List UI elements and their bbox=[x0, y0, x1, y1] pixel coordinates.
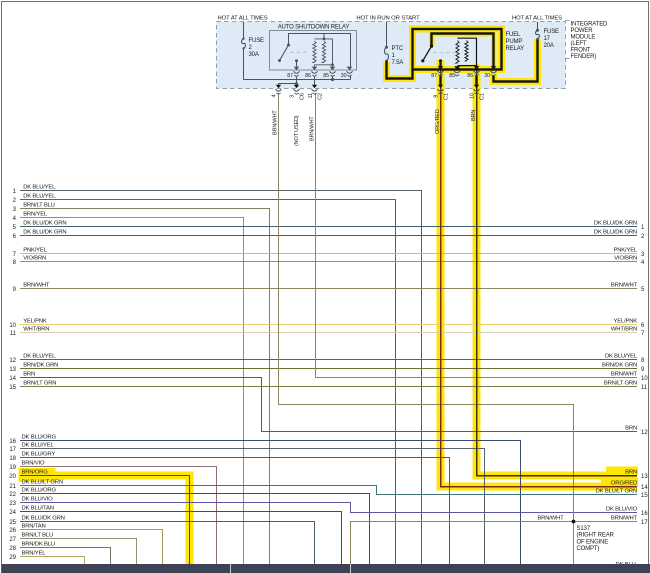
wire BRN/WHT splice branch to PCM bar bbox=[351, 522, 638, 567]
svg-text:13: 13 bbox=[641, 474, 648, 480]
svg-text:30A: 30A bbox=[249, 52, 259, 58]
svg-text:86: 86 bbox=[467, 73, 473, 79]
IPM border connectors right bbox=[438, 85, 443, 89]
svg-text:C1: C1 bbox=[480, 93, 486, 100]
svg-text:15: 15 bbox=[641, 493, 648, 499]
svg-text:29: 29 bbox=[9, 555, 16, 561]
wire 14 BRN (left) bbox=[20, 378, 637, 432]
svg-text:MODULE: MODULE bbox=[571, 35, 596, 41]
wire 7 PNK/YEL (left) bbox=[20, 253, 637, 255]
svg-text:11: 11 bbox=[641, 385, 648, 391]
svg-text:BRN/WHT: BRN/WHT bbox=[273, 110, 279, 135]
svg-text:HOT AT ALL TIMES: HOT AT ALL TIMES bbox=[512, 16, 562, 22]
FPR pin arrows/connectors bbox=[438, 66, 444, 70]
svg-text:DK BLU/ORG: DK BLU/ORG bbox=[22, 434, 57, 440]
svg-text:FRONT: FRONT bbox=[571, 48, 591, 54]
wire BRN fuel pump relay 86 bbox=[477, 70, 638, 476]
svg-text:BRN/LT BLU: BRN/LT BLU bbox=[23, 202, 55, 208]
wire 3 BRN/LT BLU (left) bbox=[20, 209, 270, 567]
FPR pin85/86 stubs bbox=[458, 66, 460, 70]
wire 28 BRN/DK BLU (left) bbox=[20, 548, 111, 567]
svg-text:RELAY: RELAY bbox=[506, 46, 525, 52]
svg-text:PUMP: PUMP bbox=[506, 39, 523, 45]
wire 5 DK BLU/DK GRN (left) bbox=[20, 226, 637, 228]
svg-text:DK BLU/GRY: DK BLU/GRY bbox=[22, 451, 56, 457]
svg-text:BRN/DK GRN: BRN/DK GRN bbox=[602, 362, 637, 368]
svg-text:11: 11 bbox=[308, 93, 314, 99]
svg-text:PNK/YEL: PNK/YEL bbox=[614, 247, 638, 253]
svg-text:BRN/TAN: BRN/TAN bbox=[22, 523, 46, 529]
wire 12 DK BLU/YEL (left) bbox=[20, 359, 637, 361]
svg-text:DK BLU/DK GRN: DK BLU/DK GRN bbox=[594, 229, 637, 235]
svg-text:BRN/DK BLU: BRN/DK BLU bbox=[22, 541, 55, 547]
svg-text:BRN/WHT: BRN/WHT bbox=[309, 116, 315, 141]
ASD pin87 branch to pins 4/3 bbox=[296, 77, 298, 84]
svg-text:9: 9 bbox=[434, 95, 440, 98]
ASD coil bracket bbox=[315, 39, 333, 65]
wire 1 DK BLU/YEL (left) bbox=[20, 191, 422, 567]
svg-text:(LEFT: (LEFT bbox=[571, 41, 587, 47]
svg-text:3: 3 bbox=[290, 95, 296, 98]
svg-text:BRN/WHT: BRN/WHT bbox=[23, 282, 50, 288]
svg-text:INTEGRATED: INTEGRATED bbox=[571, 22, 609, 28]
svg-text:BRN/YEL: BRN/YEL bbox=[23, 211, 48, 217]
svg-text:PTC: PTC bbox=[392, 46, 404, 52]
svg-text:85: 85 bbox=[449, 73, 455, 79]
fuse F17 20A bbox=[537, 22, 539, 30]
wire ORG/RED fuel pump relay 87 bbox=[441, 70, 638, 487]
svg-text:30: 30 bbox=[341, 73, 347, 79]
FPR coil bbox=[456, 41, 459, 64]
svg-text:86: 86 bbox=[305, 73, 311, 79]
FPR pin87 contact bbox=[439, 61, 441, 70]
svg-text:12: 12 bbox=[641, 430, 648, 436]
ASD common feed bbox=[289, 34, 351, 67]
svg-text:26: 26 bbox=[9, 528, 16, 534]
svg-text:HOT AT ALL TIMES: HOT AT ALL TIMES bbox=[218, 16, 268, 22]
svg-text:15: 15 bbox=[9, 385, 16, 391]
svg-text:BRN/VIO: BRN/VIO bbox=[22, 460, 45, 466]
svg-text:BRN/ORG: BRN/ORG bbox=[22, 469, 49, 475]
svg-text:BRN: BRN bbox=[625, 425, 637, 431]
svg-text:BRN/WHT: BRN/WHT bbox=[611, 282, 638, 288]
svg-text:BRN/LT GRN: BRN/LT GRN bbox=[604, 380, 637, 386]
svg-text:DK BLU/DK GRN: DK BLU/DK GRN bbox=[23, 220, 66, 226]
wire 16 DK BLU/ORG (left) bbox=[20, 441, 521, 567]
svg-text:30: 30 bbox=[484, 73, 490, 79]
svg-text:DK BLU/YEL: DK BLU/YEL bbox=[23, 184, 56, 190]
wire 6 DK BLU/DK GRN (left) bbox=[20, 235, 637, 237]
svg-text:PNK/YEL: PNK/YEL bbox=[23, 247, 47, 253]
FPR coil bracket bbox=[458, 38, 477, 65]
svg-text:VIO/BRN: VIO/BRN bbox=[23, 255, 46, 261]
ASD pin87 contact bbox=[296, 61, 298, 67]
svg-text:BRN: BRN bbox=[23, 371, 35, 377]
wire 18 DK BLU/GRY (left) bbox=[20, 458, 450, 567]
wire 19 BRN/VIO (left) bbox=[20, 467, 217, 567]
svg-text:WHT/BRN: WHT/BRN bbox=[23, 326, 49, 332]
svg-text:ORG/RED: ORG/RED bbox=[435, 109, 441, 134]
svg-text:DK BLU/VIO: DK BLU/VIO bbox=[606, 506, 638, 512]
splice S137 bbox=[572, 520, 576, 524]
IPM border connectors left bbox=[276, 85, 281, 89]
svg-text:ORG/RED: ORG/RED bbox=[611, 480, 637, 486]
wire BRN/WHT from IPM pin 11 bbox=[316, 93, 638, 378]
svg-text:23: 23 bbox=[9, 501, 16, 507]
svg-text:20: 20 bbox=[9, 474, 16, 480]
svg-text:BRN/WHT: BRN/WHT bbox=[611, 515, 638, 521]
svg-text:27: 27 bbox=[9, 537, 16, 543]
svg-text:DK BLU/LT GRN: DK BLU/LT GRN bbox=[22, 479, 63, 485]
wire 13 BRN/DK GRN (left) bbox=[20, 368, 637, 370]
svg-text:22: 22 bbox=[9, 492, 16, 498]
svg-text:BRN/WHT: BRN/WHT bbox=[611, 371, 638, 377]
svg-text:AUTO SHUTDOWN RELAY: AUTO SHUTDOWN RELAY bbox=[278, 24, 350, 30]
svg-text:85: 85 bbox=[323, 73, 329, 79]
svg-text:20A: 20A bbox=[544, 43, 554, 49]
svg-text:4: 4 bbox=[272, 95, 278, 98]
wire 11 WHT/BRN (left) bbox=[20, 332, 637, 334]
svg-text:YEL/PNK: YEL/PNK bbox=[614, 318, 638, 324]
ASD coil bbox=[313, 41, 316, 63]
bar ticks bbox=[230, 564, 232, 573]
svg-text:DK BLU/TAN: DK BLU/TAN bbox=[22, 505, 54, 511]
svg-text:DK BLU/ORG: DK BLU/ORG bbox=[22, 487, 57, 493]
svg-text:11: 11 bbox=[10, 331, 17, 337]
svg-text:18: 18 bbox=[9, 456, 16, 462]
label integrated power module bbox=[566, 20, 570, 22]
FPR output wires to border bbox=[439, 76, 441, 87]
relay AUTO SHUTDOWN RELAY bbox=[270, 31, 357, 71]
ASD coil feed riser bbox=[323, 34, 325, 39]
svg-text:17: 17 bbox=[641, 520, 648, 526]
relay FUEL PUMP RELAY bbox=[413, 29, 502, 70]
ASD switch blade bbox=[280, 45, 289, 61]
svg-text:14: 14 bbox=[641, 485, 648, 491]
svg-text:13: 13 bbox=[9, 367, 16, 373]
svg-text:DK BLU/DK GRN: DK BLU/DK GRN bbox=[594, 220, 637, 226]
svg-text:16: 16 bbox=[641, 511, 648, 517]
FPR common feed bbox=[432, 34, 494, 69]
svg-text:YEL/PNK: YEL/PNK bbox=[23, 318, 47, 324]
svg-text:25: 25 bbox=[9, 520, 16, 526]
wire 22 DK BLU/ORG (left) bbox=[20, 494, 370, 567]
svg-text:DK BLU/DK GRN: DK BLU/DK GRN bbox=[23, 229, 66, 235]
svg-text:COMPT): COMPT) bbox=[577, 546, 600, 552]
svg-text:FUSE: FUSE bbox=[544, 29, 560, 35]
ASD switch dashes bbox=[290, 51, 309, 53]
wire 21 DK BLU/LT GRN (left) bbox=[20, 486, 637, 495]
FPR switch dashes bbox=[433, 52, 455, 54]
svg-text:S137: S137 bbox=[577, 526, 591, 532]
wire 20 BRN/ORG (left) bbox=[20, 476, 190, 567]
svg-text:87: 87 bbox=[431, 73, 437, 79]
wire 15 BRN/LT GRN (left) bbox=[20, 386, 637, 388]
integrated power module box bbox=[217, 22, 566, 89]
svg-text:BRN: BRN bbox=[625, 469, 637, 475]
svg-text:C6: C6 bbox=[300, 93, 306, 100]
ASD pin arrows/connectors bbox=[294, 67, 300, 71]
wire 23 DK BLU/VIO (left) bbox=[20, 503, 637, 513]
fuse PTC 1 7.5A bbox=[386, 22, 388, 47]
svg-text:FENDER): FENDER) bbox=[571, 54, 597, 60]
svg-text:BRN/LT BLU: BRN/LT BLU bbox=[22, 532, 54, 538]
svg-text:(NOT USED): (NOT USED) bbox=[294, 115, 300, 146]
svg-text:17: 17 bbox=[9, 447, 16, 453]
svg-text:BRN/WHT: BRN/WHT bbox=[537, 515, 564, 521]
wire fuse2 rail to ASD 85/30 bbox=[244, 79, 351, 81]
svg-text:C1: C1 bbox=[444, 93, 450, 100]
svg-text:HOT IN RUN OR START: HOT IN RUN OR START bbox=[356, 16, 420, 22]
wire PTC to relay bbox=[387, 61, 413, 79]
svg-text:10: 10 bbox=[9, 323, 16, 329]
svg-text:C2: C2 bbox=[318, 93, 324, 100]
svg-text:(RIGHT REAR: (RIGHT REAR bbox=[577, 533, 615, 539]
svg-text:10: 10 bbox=[641, 376, 648, 382]
svg-text:DK BLU/LT GRN: DK BLU/LT GRN bbox=[596, 488, 637, 494]
svg-text:7.5A: 7.5A bbox=[392, 60, 404, 66]
svg-text:87: 87 bbox=[287, 73, 293, 79]
svg-text:DK BLU/YEL: DK BLU/YEL bbox=[23, 193, 56, 199]
svg-text:WHT/BRN: WHT/BRN bbox=[611, 326, 637, 332]
svg-text:21: 21 bbox=[9, 484, 16, 490]
svg-text:12: 12 bbox=[9, 358, 16, 364]
wire 27 BRN/LT BLU (left) bbox=[20, 539, 137, 567]
wire 24 DK BLU/TAN (left) bbox=[20, 512, 342, 567]
wire 25 DK BLU/DK GRN (left) bbox=[20, 522, 315, 567]
wire 29 BRN/YEL (left) bbox=[20, 557, 85, 567]
svg-text:FUEL: FUEL bbox=[506, 32, 522, 38]
svg-text:10: 10 bbox=[470, 93, 476, 99]
wire 26 BRN/TAN (left) bbox=[20, 530, 163, 567]
wire 2 DK BLU/YEL (left) bbox=[20, 200, 396, 567]
svg-text:BRN: BRN bbox=[471, 110, 477, 121]
svg-text:BRN/YEL: BRN/YEL bbox=[22, 550, 47, 556]
fuse F2 30A bbox=[243, 22, 245, 39]
wire 17 DK BLU/YEL (left) bbox=[20, 449, 485, 567]
wire BRN/WHT from IPM pin 4 to splice bbox=[279, 93, 574, 566]
wire 4 BRN/YEL (left) bbox=[20, 218, 244, 567]
wire 9 BRN/WHT (left) bbox=[20, 288, 637, 290]
svg-text:VIO/BRN: VIO/BRN bbox=[614, 255, 637, 261]
svg-text:28: 28 bbox=[9, 546, 16, 552]
svg-text:OF ENGINE: OF ENGINE bbox=[577, 539, 609, 545]
wire 10 YEL/PNK (left) bbox=[20, 324, 637, 326]
svg-text:16: 16 bbox=[9, 439, 16, 445]
svg-text:BRN/LT GRN: BRN/LT GRN bbox=[23, 380, 56, 386]
FPR switch blade bbox=[423, 46, 432, 61]
FPR coil shunt bbox=[465, 41, 468, 62]
svg-text:DK BLU/YEL: DK BLU/YEL bbox=[23, 353, 56, 359]
ASD coil shunt bbox=[322, 41, 325, 63]
svg-text:DK BLU/DK GRN: DK BLU/DK GRN bbox=[22, 515, 65, 521]
PCM connector bar bbox=[2, 564, 650, 573]
svg-text:FUSE: FUSE bbox=[249, 38, 265, 44]
wire 8 VIO/BRN (left) bbox=[20, 261, 637, 263]
svg-text:DK BLU/YEL: DK BLU/YEL bbox=[22, 442, 55, 448]
svg-text:DK BLU/VIO: DK BLU/VIO bbox=[22, 496, 54, 502]
svg-text:BRN/DK GRN: BRN/DK GRN bbox=[23, 362, 58, 368]
svg-text:19: 19 bbox=[9, 465, 16, 471]
svg-text:17: 17 bbox=[544, 36, 551, 42]
svg-text:DK BLU/YEL: DK BLU/YEL bbox=[605, 353, 638, 359]
svg-text:POWER: POWER bbox=[571, 28, 594, 34]
FPR pin30 to fuse 17 bbox=[494, 39, 538, 82]
svg-text:14: 14 bbox=[9, 376, 16, 382]
svg-text:24: 24 bbox=[9, 510, 16, 516]
